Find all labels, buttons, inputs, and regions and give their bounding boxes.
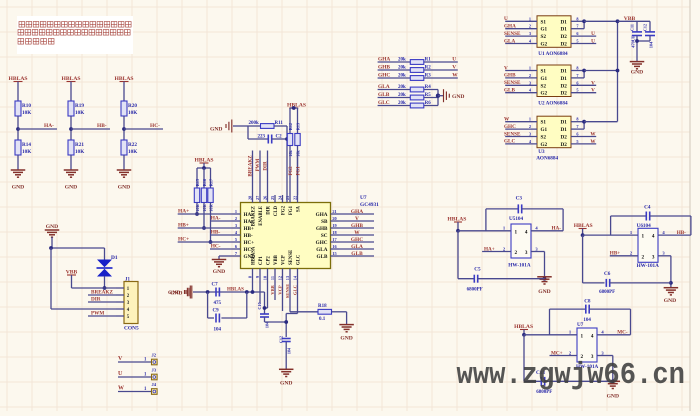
svg-text:D1: D1 [560, 27, 567, 33]
wire [51, 247, 105, 249]
ground (U7 hall) [611, 379, 615, 383]
pin 3 (HB+) [233, 227, 241, 229]
op-amp U7 GC4931 main IC [241, 203, 331, 269]
svg-text:HB-: HB- [677, 230, 686, 236]
wire / net GLB [339, 255, 375, 257]
net FG2 [289, 146, 291, 196]
wire [104, 248, 106, 260]
svg-text:5: 5 [235, 237, 237, 242]
svg-text:S1: S1 [541, 69, 547, 75]
pin 1 (HA+) [233, 213, 241, 215]
svg-text:U: U [452, 57, 456, 63]
pin 2 (U2) [505, 77, 537, 79]
pin 12 (VCP) [282, 269, 284, 277]
svg-text:C12: C12 [643, 24, 648, 31]
svg-text:GND: GND [538, 289, 550, 295]
svg-text:8: 8 [248, 276, 253, 278]
svg-text:GND: GND [46, 224, 58, 230]
wire / net GHC [339, 241, 375, 243]
pin 23 (FG1) [289, 195, 291, 203]
svg-text:10: 10 [263, 276, 268, 280]
ground (R18) [339, 324, 354, 326]
svg-text:S2: S2 [541, 83, 547, 89]
svg-text:18: 18 [332, 230, 336, 235]
svg-text:VCP: VCP [282, 255, 287, 265]
svg-text:4: 4 [591, 333, 594, 339]
svg-text:GLB: GLB [504, 88, 515, 94]
svg-text:HW-101A: HW-101A [637, 263, 660, 269]
resistor R11 200k [248, 125, 261, 127]
pin 7 (GND) [233, 255, 241, 257]
wire [437, 90, 439, 106]
svg-text:10K: 10K [128, 149, 137, 155]
svg-text:FG2: FG2 [289, 166, 294, 176]
resistor R12 10k [289, 108, 291, 134]
svg-text:C5: C5 [474, 267, 481, 273]
svg-text:U5104: U5104 [509, 216, 524, 222]
wire pin3 [531, 251, 545, 253]
wire [71, 128, 110, 130]
svg-text:FG2: FG2 [282, 205, 287, 215]
svg-text:GND: GND [452, 94, 464, 100]
op-amp U6 HW-101A hall [638, 228, 658, 262]
wire [124, 128, 163, 130]
svg-text:MC-: MC- [617, 330, 628, 336]
svg-text:GND: GND [65, 185, 77, 191]
svg-text:D1: D1 [560, 120, 567, 126]
wire (D1 pins to VBB rail) [571, 20, 584, 22]
pin 5 (J1) [116, 315, 124, 317]
wire pin3 [597, 355, 613, 357]
wire [197, 167, 211, 169]
svg-text:G2: G2 [541, 42, 548, 48]
pin 19 (GHB) [331, 227, 339, 229]
svg-text:V: V [591, 88, 595, 94]
pin 2 (J1) [116, 294, 124, 296]
pin 14 (GLC) [297, 269, 299, 277]
net DIR [267, 151, 269, 196]
svg-text:3: 3 [529, 80, 531, 85]
wire pin1 [522, 333, 526, 337]
svg-text:J4: J4 [152, 382, 157, 387]
svg-text:V: V [591, 80, 595, 86]
svg-text:D2: D2 [560, 135, 567, 141]
svg-text:GND: GND [12, 185, 24, 191]
svg-text:FG1: FG1 [297, 166, 302, 176]
svg-text:21: 21 [332, 209, 336, 214]
ground [64, 169, 79, 171]
node [202, 226, 206, 230]
svg-text:PWM: PWM [91, 311, 104, 317]
svg-text:V: V [118, 356, 123, 362]
svg-text:GLC: GLC [292, 285, 297, 295]
svg-text:5: 5 [576, 88, 578, 93]
wire [286, 126, 288, 203]
svg-text:HBIASA: HBIASA [252, 246, 257, 265]
svg-text:R18: R18 [318, 304, 327, 309]
svg-text:ENABLE: ENABLE [259, 206, 264, 226]
wire [18, 128, 57, 130]
svg-text:HW-101A: HW-101A [508, 263, 531, 269]
op-amp U7h HW-101A hall [577, 328, 597, 362]
pins 6,5 net U [571, 35, 596, 37]
wire / net GLA [339, 248, 375, 250]
svg-text:U7: U7 [360, 195, 367, 201]
svg-text:13: 13 [285, 276, 290, 280]
svg-text:R16: R16 [202, 179, 207, 186]
svg-text:S2: S2 [541, 34, 547, 40]
pin 5 (HC+) [233, 241, 241, 243]
pin 8 (HBIASA) [252, 269, 254, 277]
pin 22 (SA) [297, 195, 299, 203]
pin 9 (CP1) [259, 269, 261, 277]
svg-text:5: 5 [576, 39, 578, 44]
wire [123, 116, 125, 140]
capacitor C10 104 [264, 292, 266, 314]
op-amp U5 HW-101A hall [511, 224, 531, 258]
svg-text:HA-: HA- [44, 123, 54, 129]
svg-text:GHA: GHA [351, 209, 363, 215]
wire (D1 pins to VBB rail) [571, 121, 584, 123]
svg-text:R5: R5 [425, 93, 432, 98]
svg-text:0.1: 0.1 [319, 317, 326, 322]
svg-text:19: 19 [332, 223, 336, 228]
svg-text:HB-: HB- [244, 233, 253, 239]
svg-text:C7: C7 [212, 283, 219, 288]
svg-text:R17: R17 [208, 179, 213, 186]
svg-text:104: 104 [649, 41, 654, 48]
wire [70, 155, 72, 170]
net FG1 [297, 146, 299, 196]
resistor R18 0.1 [290, 311, 318, 313]
net VBB [274, 276, 276, 300]
node [103, 286, 107, 290]
svg-text:D2: D2 [560, 91, 567, 97]
node [209, 240, 213, 244]
wire [51, 308, 116, 310]
svg-text:C8: C8 [584, 299, 591, 305]
svg-text:R4: R4 [425, 85, 432, 90]
svg-text:4: 4 [652, 234, 655, 240]
pin 17 (GHC) [331, 241, 339, 243]
net DIR [88, 301, 116, 303]
pin 10 (CP2) [267, 269, 269, 277]
svg-text:9: 9 [255, 276, 260, 278]
wire [123, 82, 125, 102]
svg-text:AON6884: AON6884 [536, 156, 558, 162]
svg-text:DIR: DIR [267, 205, 272, 214]
svg-text:10K: 10K [128, 110, 137, 116]
ground (U6) [669, 281, 673, 285]
wire (IC GND pin) [219, 255, 233, 257]
svg-text:223: 223 [258, 135, 266, 140]
svg-text:SENSE: SENSE [504, 131, 521, 137]
svg-text:4: 4 [525, 229, 528, 235]
wire pin1 [581, 233, 585, 237]
svg-text:GND: GND [280, 381, 292, 387]
pin 3 (U1) [505, 35, 537, 37]
wire [70, 82, 72, 102]
ground (U5) [543, 277, 547, 281]
svg-text:W: W [354, 230, 360, 236]
svg-text:www.zgwjw66.cn: www.zgwjw66.cn [457, 358, 686, 393]
svg-text:FG1: FG1 [289, 205, 294, 215]
svg-text:GND: GND [210, 127, 222, 133]
wire / net W [339, 234, 375, 236]
pin 28 (BRAKEZ) [252, 195, 254, 203]
svg-text:G2: G2 [541, 91, 548, 97]
svg-text:W: W [590, 139, 596, 145]
svg-text:V: V [452, 65, 456, 71]
svg-text:R3: R3 [425, 74, 432, 79]
svg-text:D2: D2 [560, 34, 567, 40]
resistor R16 10K [203, 168, 205, 188]
pin 4 (U3) [505, 143, 537, 145]
resistor R22 10K [121, 140, 127, 155]
svg-text:C12: C12 [279, 336, 284, 343]
svg-text:C6: C6 [604, 271, 611, 277]
svg-text:CP1: CP1 [259, 256, 264, 265]
svg-text:GND: GND [213, 269, 225, 275]
svg-text:S1: S1 [541, 120, 547, 126]
svg-text:3: 3 [525, 250, 528, 256]
svg-text:R14: R14 [22, 142, 31, 148]
svg-text:11: 11 [270, 276, 275, 280]
net VCP [282, 276, 284, 311]
svg-text:SENSE: SENSE [285, 284, 290, 299]
svg-text:GLB: GLB [317, 254, 328, 260]
svg-text:CP2: CP2 [267, 256, 272, 265]
svg-text:470UF: 470UF [631, 35, 636, 48]
svg-text:GND: GND [607, 394, 619, 400]
resistor R20 10K [121, 101, 127, 116]
pin 3 (J1) [116, 301, 124, 303]
ground [11, 169, 26, 171]
svg-text:200k: 200k [249, 121, 260, 126]
wire pin3 [658, 255, 671, 257]
wire [123, 155, 125, 170]
wire / net GHA [339, 213, 375, 215]
pin 18 (SC) [331, 234, 339, 236]
wire [618, 20, 651, 22]
svg-text:5: 5 [576, 139, 578, 144]
svg-text:104: 104 [287, 347, 292, 354]
wire VBB rail [617, 21, 619, 121]
svg-text:GND: GND [118, 185, 130, 191]
pin 25 (CLD) [274, 195, 276, 203]
svg-text:BRAKEZ: BRAKEZ [252, 206, 257, 226]
svg-text:C2: C2 [276, 135, 283, 140]
svg-text:D1: D1 [560, 19, 567, 25]
svg-text:U: U [591, 31, 595, 37]
svg-text:S1: S1 [541, 19, 547, 25]
capacitor C5 6800PF [457, 231, 459, 279]
svg-text:R22: R22 [128, 142, 137, 148]
svg-text:SENSE: SENSE [504, 31, 521, 37]
pin 24 (FG2) [282, 195, 284, 203]
pin 27 (ENABLE) [259, 195, 261, 203]
capacitor C9 104 [207, 292, 209, 318]
svg-text:20: 20 [332, 216, 336, 221]
svg-text:S2: S2 [541, 135, 547, 141]
svg-text:D2: D2 [560, 83, 567, 89]
wire [70, 116, 72, 140]
svg-text:VCP: VCP [277, 285, 282, 295]
svg-text:2: 2 [515, 250, 518, 256]
svg-text:10K: 10K [22, 110, 31, 116]
wire [104, 276, 106, 288]
capacitor C11 470UF [636, 21, 638, 32]
svg-text:DIR: DIR [91, 297, 101, 303]
svg-text:2: 2 [235, 216, 237, 221]
wire / net V [339, 220, 375, 222]
svg-text:G2: G2 [541, 142, 548, 148]
svg-text:GHA: GHA [504, 24, 516, 30]
pin 16 (GLA) [331, 248, 339, 250]
pin 6 (HC-) [233, 248, 241, 250]
pin 1 (U3) [505, 121, 537, 123]
svg-text:BREAKZ: BREAKZ [91, 290, 113, 296]
svg-text:SA: SA [297, 205, 302, 212]
svg-text:GND: GND [631, 70, 643, 76]
svg-text:GHB: GHB [504, 73, 516, 79]
svg-text:8: 8 [576, 66, 578, 71]
net SENSE [289, 276, 291, 312]
net PWM [259, 151, 261, 196]
ground (VBB caps) [630, 61, 645, 63]
svg-text:U6104: U6104 [637, 223, 652, 229]
svg-text:U: U [591, 39, 595, 45]
pin 3 (U2) [505, 84, 537, 86]
svg-text:J1: J1 [125, 278, 131, 283]
pins 6,5 net W [571, 136, 596, 138]
svg-text:J3: J3 [152, 368, 157, 373]
svg-text:6800PF: 6800PF [467, 288, 483, 293]
svg-text:C9: C9 [213, 309, 220, 314]
wire pin4 / net HA- [531, 230, 563, 232]
svg-text:GLA: GLA [351, 244, 363, 250]
svg-text:GND: GND [664, 298, 676, 304]
svg-text:BREAKZ: BREAKZ [248, 155, 253, 177]
svg-text:25: 25 [270, 196, 275, 200]
pin 2 (HA-) [233, 220, 241, 222]
wire SA [297, 152, 299, 195]
ground (bottom center) [279, 368, 294, 370]
svg-text:SB: SB [321, 219, 328, 225]
capacitor C6 6800PF [582, 235, 584, 283]
pin 3 (U3) [505, 136, 537, 138]
svg-text:VBB: VBB [270, 285, 275, 294]
svg-text:3: 3 [652, 254, 655, 260]
wire [265, 321, 287, 323]
svg-text:R20: R20 [128, 103, 137, 109]
svg-text:SC: SC [321, 233, 328, 239]
svg-text:12: 12 [278, 276, 283, 280]
svg-text:U: U [504, 16, 508, 22]
node HA- [16, 127, 20, 131]
resistor R13 10k [297, 108, 299, 134]
svg-text:3: 3 [235, 223, 237, 228]
node [245, 290, 249, 294]
net BREAKZ [88, 294, 116, 296]
wire [71, 275, 73, 288]
svg-text:VBB: VBB [274, 254, 279, 265]
pin 11 (VBB) [274, 269, 276, 277]
net PWM [88, 315, 116, 317]
svg-text:28: 28 [248, 196, 253, 200]
pin 1 (U1) [505, 20, 537, 22]
svg-text:W: W [118, 386, 124, 392]
svg-text:10K: 10K [75, 149, 84, 155]
wire [247, 126, 249, 139]
pin 1 (U2) [505, 70, 537, 72]
svg-text:GHB: GHB [316, 226, 328, 232]
net GLC [297, 276, 299, 314]
pin 1 (J1) [116, 287, 124, 289]
wire [193, 291, 265, 293]
pins 6,5 net V [571, 84, 596, 86]
net BREAKZ [252, 151, 254, 196]
node HB- [69, 127, 73, 131]
svg-text:R1: R1 [425, 58, 432, 63]
svg-text:GHB: GHB [351, 223, 363, 229]
svg-text:1: 1 [581, 333, 584, 339]
capacitor C7 475 [215, 288, 217, 297]
svg-text:GHC: GHC [504, 124, 516, 130]
svg-text:R6: R6 [425, 101, 432, 106]
svg-text:8: 8 [576, 16, 578, 21]
wire pin10 [267, 276, 269, 308]
capacitor C2 223 [248, 138, 268, 140]
svg-text:C3: C3 [516, 196, 523, 202]
resistor R15 10K [196, 168, 198, 188]
resistor R10 10K [15, 101, 21, 116]
svg-text:1: 1 [235, 209, 237, 214]
svg-text:R21: R21 [75, 142, 84, 148]
svg-text:GHC: GHC [316, 240, 328, 246]
svg-text:HB-: HB- [97, 123, 107, 129]
diode D1 (TVS) [97, 260, 112, 277]
svg-text:GLC: GLC [504, 139, 515, 145]
svg-text:R10: R10 [22, 103, 31, 109]
node [285, 137, 289, 141]
wire [17, 155, 19, 170]
svg-text:1: 1 [529, 16, 531, 21]
svg-text:HBLAS: HBLAS [227, 288, 244, 293]
ground [117, 169, 132, 171]
ground (GL resistors) [438, 95, 443, 97]
pin 21 (GHA) [331, 213, 339, 215]
pin 2 (U1) [505, 28, 537, 30]
svg-text:104: 104 [583, 318, 591, 323]
svg-text:R15: R15 [195, 179, 200, 186]
svg-text:GHC: GHC [351, 237, 363, 243]
svg-text:SENSE: SENSE [289, 250, 294, 265]
annotation note [17, 16, 133, 54]
svg-text:GLA: GLA [504, 38, 515, 44]
svg-text:3: 3 [529, 132, 531, 137]
svg-text:10K: 10K [22, 149, 31, 155]
svg-text:475: 475 [214, 301, 222, 306]
svg-text:1: 1 [529, 66, 531, 71]
pin 20 (SB) [331, 220, 339, 222]
svg-text:U: U [118, 371, 123, 377]
pin 4 (HB-) [233, 234, 241, 236]
svg-text:D1: D1 [560, 69, 567, 75]
svg-text:15: 15 [332, 251, 336, 256]
pin 4 (J1) [116, 308, 124, 310]
svg-text:U3: U3 [538, 149, 545, 155]
